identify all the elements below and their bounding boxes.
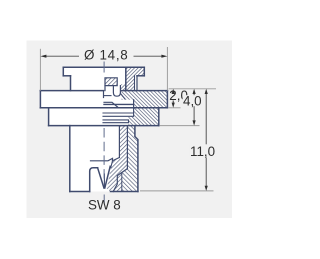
ext line step <box>160 125 200 127</box>
arrow 2,0 down stem <box>173 101 174 104</box>
svg-text:4,0: 4,0 <box>183 93 202 108</box>
arrow 4,0 up <box>193 89 196 94</box>
insert seat line <box>104 95 111 97</box>
ext line dia left <box>39 49 41 91</box>
centerline dashes mid <box>103 128 105 181</box>
ext line flange bottom <box>169 107 181 109</box>
body column section <box>122 126 138 192</box>
cap neck left edge <box>70 76 72 91</box>
svg-text:11,0: 11,0 <box>190 144 215 159</box>
arrow 11,0 down <box>205 186 208 191</box>
insert flare + lower skirt section <box>107 158 128 192</box>
insert flare left edge <box>111 161 113 168</box>
U channel chamfer <box>121 94 126 100</box>
dim line 4,0 <box>193 93 195 122</box>
centerline below apex / SW8 leader <box>103 195 105 204</box>
insert top box <box>105 78 117 86</box>
cap hole lobe section <box>121 84 126 90</box>
cap skirt outer edge <box>136 76 138 91</box>
cap hole / skirt inner edge <box>125 67 127 90</box>
part silhouette white fill <box>40 67 167 191</box>
flange hatch boundary <box>133 100 135 108</box>
flange top right <box>121 90 168 92</box>
V notch right leg <box>105 166 110 188</box>
centerline top tick <box>103 62 105 73</box>
dim line 11,0 upper <box>205 93 207 144</box>
arrow dia left <box>40 55 46 58</box>
flange right edge <box>166 91 168 108</box>
ring1 <box>103 108 134 117</box>
flange top left <box>40 90 103 92</box>
arrow 4,0 down <box>193 120 196 125</box>
cap lid annulus section <box>126 67 145 76</box>
insert seat step <box>104 102 118 107</box>
ext line bottom <box>140 190 214 192</box>
cap lid top <box>63 66 144 68</box>
cap lid left edge <box>62 67 64 76</box>
cap skirt column section <box>126 76 135 91</box>
insert column section <box>119 126 127 158</box>
gray drawing panel <box>27 41 233 219</box>
dim line dia right segment <box>134 55 164 57</box>
text 11,0 bg <box>190 145 219 157</box>
flange bottom <box>40 107 167 109</box>
cap lid right edge <box>143 67 145 76</box>
tip shoulder line <box>91 158 113 160</box>
band3 bottom <box>49 125 159 127</box>
cap skirt wall edge <box>134 76 136 91</box>
arrow 2,0 up <box>172 89 175 94</box>
insert stem left <box>104 86 106 91</box>
cap lid step right <box>137 75 144 77</box>
hex right edge <box>135 126 138 192</box>
svg-text:SW 8: SW 8 <box>88 198 121 213</box>
text 4,0 bg <box>183 95 198 106</box>
insert U channel <box>113 86 120 97</box>
insert/body fit line <box>126 126 128 169</box>
arrow dia right <box>161 55 167 58</box>
band3 right edge <box>158 108 160 126</box>
insert bore wall left <box>118 126 120 158</box>
ext line dia right <box>166 47 168 91</box>
dim line dia left segment <box>45 55 80 57</box>
band3 left edge <box>48 108 50 126</box>
body band3 right section <box>134 108 159 126</box>
insert flare top edge <box>113 158 120 161</box>
body ring corner section <box>129 116 134 125</box>
V notch inner edge <box>103 174 105 188</box>
body flange right section <box>122 91 168 108</box>
bottom face right (section) <box>111 191 138 193</box>
V notch left leg <box>98 168 104 188</box>
hex left edge <box>69 126 71 192</box>
dim line 11,0 lower <box>205 158 207 187</box>
arrow 11,0 up <box>205 89 208 94</box>
ring2 <box>103 120 129 123</box>
insert/body chevron boundary <box>121 173 123 192</box>
ext line top face <box>169 88 216 90</box>
flange left edge <box>39 91 41 108</box>
insert base line <box>104 103 134 105</box>
cap lid step left <box>63 75 70 77</box>
view-section boundary stub <box>103 91 105 98</box>
body inner step <box>113 169 127 192</box>
insert top section <box>105 78 117 86</box>
bottom face left <box>70 191 90 193</box>
arrow 2,0 down <box>172 103 175 108</box>
tip recess wall <box>90 168 98 192</box>
svg-text:Ø 14,8: Ø 14,8 <box>84 47 128 62</box>
